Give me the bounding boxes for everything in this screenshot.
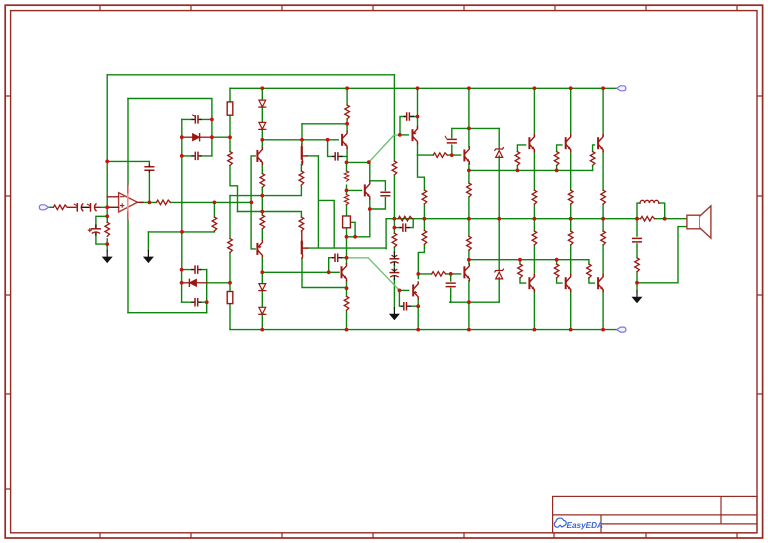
capacitor C10 BE lower: [333, 254, 342, 261]
junction x230 low: [228, 281, 232, 285]
junction out rail o2: [569, 217, 573, 221]
resistor R30 collector l2: [568, 231, 573, 245]
inductor L1: [640, 200, 659, 203]
resistor R25 base u3: [590, 152, 595, 166]
junction out rail o1: [533, 217, 537, 221]
resistor R23 base u1: [515, 152, 520, 166]
wire RC across feedback R: [386, 219, 413, 249]
diode D4: [259, 122, 266, 129]
resistor R14 Vbe rect: [343, 216, 351, 228]
transistor Q6 BE-cap follower: [342, 264, 347, 281]
junction RC bottom: [105, 242, 109, 246]
transistor Q1 mid upper: [257, 147, 262, 164]
junction feedback tap: [105, 160, 109, 164]
diode D1 trio1: [182, 134, 212, 141]
resistor R34 base l3: [587, 264, 592, 278]
junction railB d: [260, 86, 264, 90]
resistor R40 x262 lower: [260, 215, 265, 229]
junction railB o1: [533, 86, 537, 90]
resistor R13 VAS chain b: [344, 195, 349, 205]
junction pre cap l: [449, 272, 453, 276]
wire y128 link: [452, 127, 499, 129]
junction railB o2: [569, 86, 573, 90]
wire trio1 right vertical: [211, 119, 213, 155]
wire input net to op-amp: [100, 206, 119, 208]
wire base line lower-left pair: [307, 156, 386, 248]
resistor R31 collector l3: [601, 231, 606, 245]
wire lower speedup cap: [399, 290, 418, 306]
wire op-amp V+ column: [127, 99, 129, 186]
resistor R16 feedback x394: [392, 161, 397, 175]
resistor R26 emitter u1: [532, 190, 537, 204]
junction x347 y124: [345, 122, 349, 126]
wire y124 link: [302, 123, 347, 125]
junction rail bot a: [260, 328, 264, 332]
capacitor C6 trio1 bottom: [192, 152, 201, 159]
wire VAS bias column x230: [230, 115, 238, 211]
junction out R4: [213, 201, 217, 205]
wire left vertical feedback column: [106, 75, 108, 223]
wire trio1 left vertical: [181, 119, 183, 155]
wire x230 lower chain: [229, 196, 231, 329]
wire lower pre cap leads: [450, 274, 452, 302]
wire trio1 rows: [182, 119, 230, 155]
resistor R22 y274: [432, 272, 446, 277]
junction out cap: [148, 201, 152, 205]
capacitor C11 miller: [381, 192, 390, 196]
junction y170 b1: [516, 169, 520, 173]
wire y211 link: [238, 212, 302, 218]
resistor R21 y155: [433, 153, 447, 158]
wire out col1 base: [517, 145, 525, 171]
wire base rail of mid pair: [251, 156, 255, 249]
wire out col3 base: [593, 145, 595, 171]
capacitor C2 input: [87, 204, 99, 211]
diode D5: [259, 284, 266, 291]
junction input net: [105, 205, 109, 209]
wire pre-driver column x469: [468, 88, 470, 329]
wire miller cap loop: [370, 181, 386, 209]
wire upper driver emitter: [417, 144, 419, 155]
junction x469 y260: [467, 258, 471, 262]
junction drv cap u: [416, 115, 420, 119]
port VCC connector: [617, 86, 626, 91]
wire bottom feedback return: [128, 312, 207, 314]
resistor R28 emitter u3: [601, 190, 606, 204]
capacitor C14 y228: [400, 224, 409, 231]
resistor R8 rect: [227, 292, 233, 304]
wire out col2 lower base: [557, 260, 562, 283]
op-amp U1: [107, 185, 143, 219]
wire upper driver collector: [417, 88, 419, 128]
transistor Q4 x302 lower: [300, 231, 307, 258]
wire diode string column upper: [261, 88, 263, 147]
ground mid: [389, 308, 400, 321]
transistor Q9 driver lower pnp: [413, 282, 418, 299]
port VEE connector: [617, 327, 626, 332]
transistor Q13 out u2: [566, 135, 571, 152]
junction rail bot b: [345, 328, 349, 332]
speaker LS1: [687, 206, 711, 238]
junction drv base l: [398, 289, 402, 293]
junction trio1 left bot: [180, 154, 184, 158]
junction y237 a: [345, 235, 349, 239]
wire mid-left vertical (trios to gnd tap): [181, 156, 183, 270]
wire upper speedup cap: [400, 117, 418, 135]
resistor R35 zobel: [635, 258, 640, 272]
resistor R1 input: [53, 205, 67, 210]
junction y211 x262: [260, 210, 264, 214]
junction y140 c: [326, 138, 330, 142]
wire top feedback rail A: [107, 74, 394, 76]
resistor R32 base l1: [518, 264, 523, 278]
wire out col1 lower: [533, 219, 535, 330]
junction x469 y218: [467, 217, 471, 221]
diode D7 upper zener: [495, 148, 504, 158]
wire upper base dist y170: [469, 169, 593, 171]
junction railB o3: [601, 86, 605, 90]
wire RC shunt box: [96, 216, 107, 250]
wire lower base dist y260: [469, 259, 589, 261]
wire y162 link: [347, 161, 369, 163]
diode D6: [259, 307, 266, 314]
capacitor C7 trio2 top: [192, 266, 201, 273]
resistor R24 base u2: [554, 152, 559, 166]
diode D3: [259, 100, 266, 107]
junction VAS base: [345, 189, 349, 193]
junction miller: [368, 207, 372, 211]
resistor R15 x346 low: [344, 296, 349, 310]
wire Vbe multiplier stub: [349, 222, 355, 237]
junction rail bot g: [601, 328, 605, 332]
junction trio1 right mid: [210, 135, 214, 139]
capacitor C3 shunt polarized: [88, 225, 100, 235]
wire Q5 base link: [307, 155, 319, 157]
wire Q6 collector down: [302, 258, 347, 288]
wire x302 collector link: [301, 124, 303, 144]
junction railB drv: [416, 86, 420, 90]
wire zobel gnd stem: [636, 283, 638, 291]
junction y260 b2: [555, 258, 559, 262]
resistor R19 x424 a: [422, 190, 427, 204]
junction x394 y228: [393, 226, 397, 230]
wire lower pre base net y274: [418, 273, 460, 275]
wire zobel branch: [636, 219, 638, 283]
wire x347 column: [346, 88, 348, 162]
wire lower driver emitter: [417, 299, 419, 330]
wire op-amp output net: [140, 201, 251, 203]
resistor R29 collector l1: [532, 231, 537, 245]
junction trio1 right top: [210, 118, 214, 122]
wire inductor loop: [637, 203, 665, 219]
resistor R5 rect: [227, 102, 233, 115]
transistor Q7 VAS: [365, 182, 370, 199]
wire op-amp V- column: [127, 220, 129, 313]
svg-text:EasyEDA: EasyEDA: [567, 521, 603, 530]
wire negative bottom rail: [230, 328, 617, 331]
junction y140 a: [260, 138, 264, 142]
resistor R27 emitter u2: [568, 190, 573, 204]
capacitor C5 trio1 top: [192, 115, 201, 123]
junction rail bot f: [569, 328, 573, 332]
transistor Q3 x302 upper: [301, 144, 308, 165]
junction rail bot e: [533, 328, 537, 332]
junction x346 cap: [345, 256, 349, 260]
transistor Q2 mid lower pnp: [257, 240, 262, 257]
transistor Q14 out u3: [598, 135, 603, 152]
capacitor C17 pre upper: [445, 136, 456, 143]
EasyEDA logo: [554, 518, 603, 530]
wire speaker return: [637, 227, 687, 283]
wire upper diode column: [498, 128, 500, 218]
capacitor C18 pre lower: [446, 283, 455, 287]
junction x469 y302: [467, 300, 471, 304]
wire VAS base stub: [347, 189, 362, 191]
resistor R2 shunt: [105, 222, 110, 236]
junction pre cap u: [450, 153, 454, 157]
wire diode string column lower: [261, 259, 263, 330]
wire trio2 right vertical: [206, 270, 208, 313]
transistor Q10 pre-driver upper: [464, 147, 469, 164]
junction drv cap l: [416, 304, 420, 308]
junction x230 mid: [228, 135, 232, 139]
wire out col1 lower base: [520, 260, 526, 283]
resistor R20 x424 b: [422, 230, 427, 244]
transistor Q12 out u1: [529, 135, 534, 152]
junction rail bot d: [467, 328, 471, 332]
junction x499 y218: [497, 217, 501, 221]
wire BE cap lower taps: [329, 258, 347, 273]
capacitor C8 trio2 bottom: [192, 299, 201, 306]
junction zobel gnd: [635, 281, 639, 285]
port IN connector: [39, 205, 48, 210]
junction y170 b2: [555, 169, 559, 173]
wire Q5 emitter to R: [300, 165, 302, 172]
resistor R9: [299, 171, 304, 185]
wire positive rail B: [230, 87, 617, 89]
resistor R37 x469 upper: [467, 183, 472, 197]
wire trio1 top feed: [128, 99, 212, 120]
wire out col2 upper: [570, 88, 572, 218]
junction x262 y272: [260, 270, 264, 274]
junction out end: [250, 201, 254, 205]
ground op-amp load: [143, 251, 154, 264]
wire out col3 lower base: [589, 260, 594, 283]
wire feedback cap branch: [107, 161, 149, 202]
junction RC top: [105, 214, 109, 218]
resistor R18 y218: [398, 216, 412, 221]
junction zobel top: [635, 217, 639, 221]
junction rail bot c: [416, 328, 420, 332]
wire upper driver base: [400, 134, 408, 136]
transistor Q5 x342: [342, 131, 347, 148]
capacitor C16 speedup lower: [402, 303, 411, 310]
resistor R6: [228, 152, 233, 166]
resistor R36 output: [641, 216, 655, 221]
resistor R3 op-amp out: [156, 200, 170, 205]
resistor R4 to gnd: [212, 217, 217, 231]
junction gnd tap: [180, 230, 184, 234]
wire out col3 upper: [602, 88, 604, 218]
junction trio2 right bot: [205, 300, 209, 304]
junction out rail o3: [601, 217, 605, 221]
ground input: [102, 251, 113, 264]
junction diag1: [367, 160, 371, 164]
capacitor C15 speedup upper: [404, 113, 413, 120]
wire inter-driver chain x424: [418, 155, 425, 279]
resistor R11 x347: [345, 105, 350, 119]
diode D2 trio2: [182, 279, 207, 286]
wire upper pre cap leads: [451, 128, 453, 155]
transistor Q17 out l3: [598, 275, 603, 292]
junction trio2 left mid: [180, 281, 184, 285]
resistor R17 x394: [392, 233, 397, 247]
wire pale diagonal upper: [369, 135, 400, 162]
capacitor C1 input: [67, 204, 89, 211]
wire VAS collector up: [369, 162, 371, 182]
wire feedback R to gnd: [148, 202, 214, 232]
capacitor C12 elect a: [390, 252, 398, 265]
capacitor C9 BE upper: [333, 153, 342, 160]
junction trio1 left mid: [180, 135, 184, 139]
resistor R12 VAS chain a: [344, 171, 349, 181]
wire out col1 upper: [533, 88, 535, 218]
wire rail B corner to R2: [229, 88, 231, 102]
wire rail-A right column x394: [393, 75, 395, 308]
wire input to R1: [49, 206, 54, 208]
wire lower diode column: [498, 219, 500, 303]
capacitor C19 zobel: [633, 238, 642, 242]
junction speaker node: [663, 217, 667, 221]
wire VAS input net y140: [262, 139, 338, 141]
junction x424 y218: [423, 217, 427, 221]
junction y237 b: [353, 235, 357, 239]
wire y302 link: [450, 301, 500, 303]
junction x469 y170: [467, 169, 471, 173]
diode D8 lower zener: [495, 269, 504, 279]
transistor Q11 pre-driver lower: [464, 264, 469, 281]
wire to speaker: [637, 218, 687, 220]
wire lower driver base: [399, 289, 408, 291]
junction x418 y274: [416, 272, 420, 276]
junction y195 x262: [260, 194, 264, 198]
junction x346 y162: [345, 161, 349, 165]
wire trio2 rows: [182, 270, 230, 303]
capacitor C13 elect b: [390, 269, 398, 280]
resistor R7: [228, 239, 233, 253]
transistor Q15 out l1: [529, 275, 534, 292]
transistor Q8 driver upper pnp: [413, 127, 418, 144]
wire y195 link: [230, 186, 301, 196]
wire y155 emitter link: [418, 154, 461, 156]
wire output mid rail: [386, 218, 637, 220]
junction trio2 left top: [180, 268, 184, 272]
wire BE cap upper taps: [328, 140, 348, 157]
junction x469 y128: [467, 126, 471, 130]
junction railB pre: [467, 86, 471, 90]
wire y237 link: [347, 199, 370, 237]
wire out col2 base: [557, 145, 562, 171]
capacitor C4 feedback: [145, 165, 154, 172]
transistor Q16 out l2: [566, 275, 571, 292]
junction railB q5: [345, 86, 349, 90]
resistor R38 x469 lower: [467, 236, 472, 250]
wire out col2 lower: [570, 219, 572, 330]
wire mid NPN emitter to PNP: [261, 164, 263, 240]
junction y272 cap: [327, 270, 331, 274]
wire pale diagonal lower: [347, 258, 400, 291]
junction x346 y288: [345, 286, 349, 290]
wire y287 y272 base net lower: [262, 271, 339, 273]
wire trio2 left vertical: [181, 270, 183, 303]
junction y260 b1: [518, 258, 522, 262]
junction y140 b: [300, 138, 304, 142]
wire x346 VAS chain: [346, 162, 348, 329]
wire out col3 lower: [602, 219, 604, 330]
resistor R33 base l2: [554, 264, 559, 278]
resistor R39 x262 upper: [260, 174, 265, 188]
resistor R10: [299, 217, 304, 231]
junction x394 y218: [393, 217, 397, 221]
wire gnd2 stem: [147, 232, 149, 251]
junction drv base u: [398, 133, 402, 137]
ground zobel: [632, 291, 643, 304]
